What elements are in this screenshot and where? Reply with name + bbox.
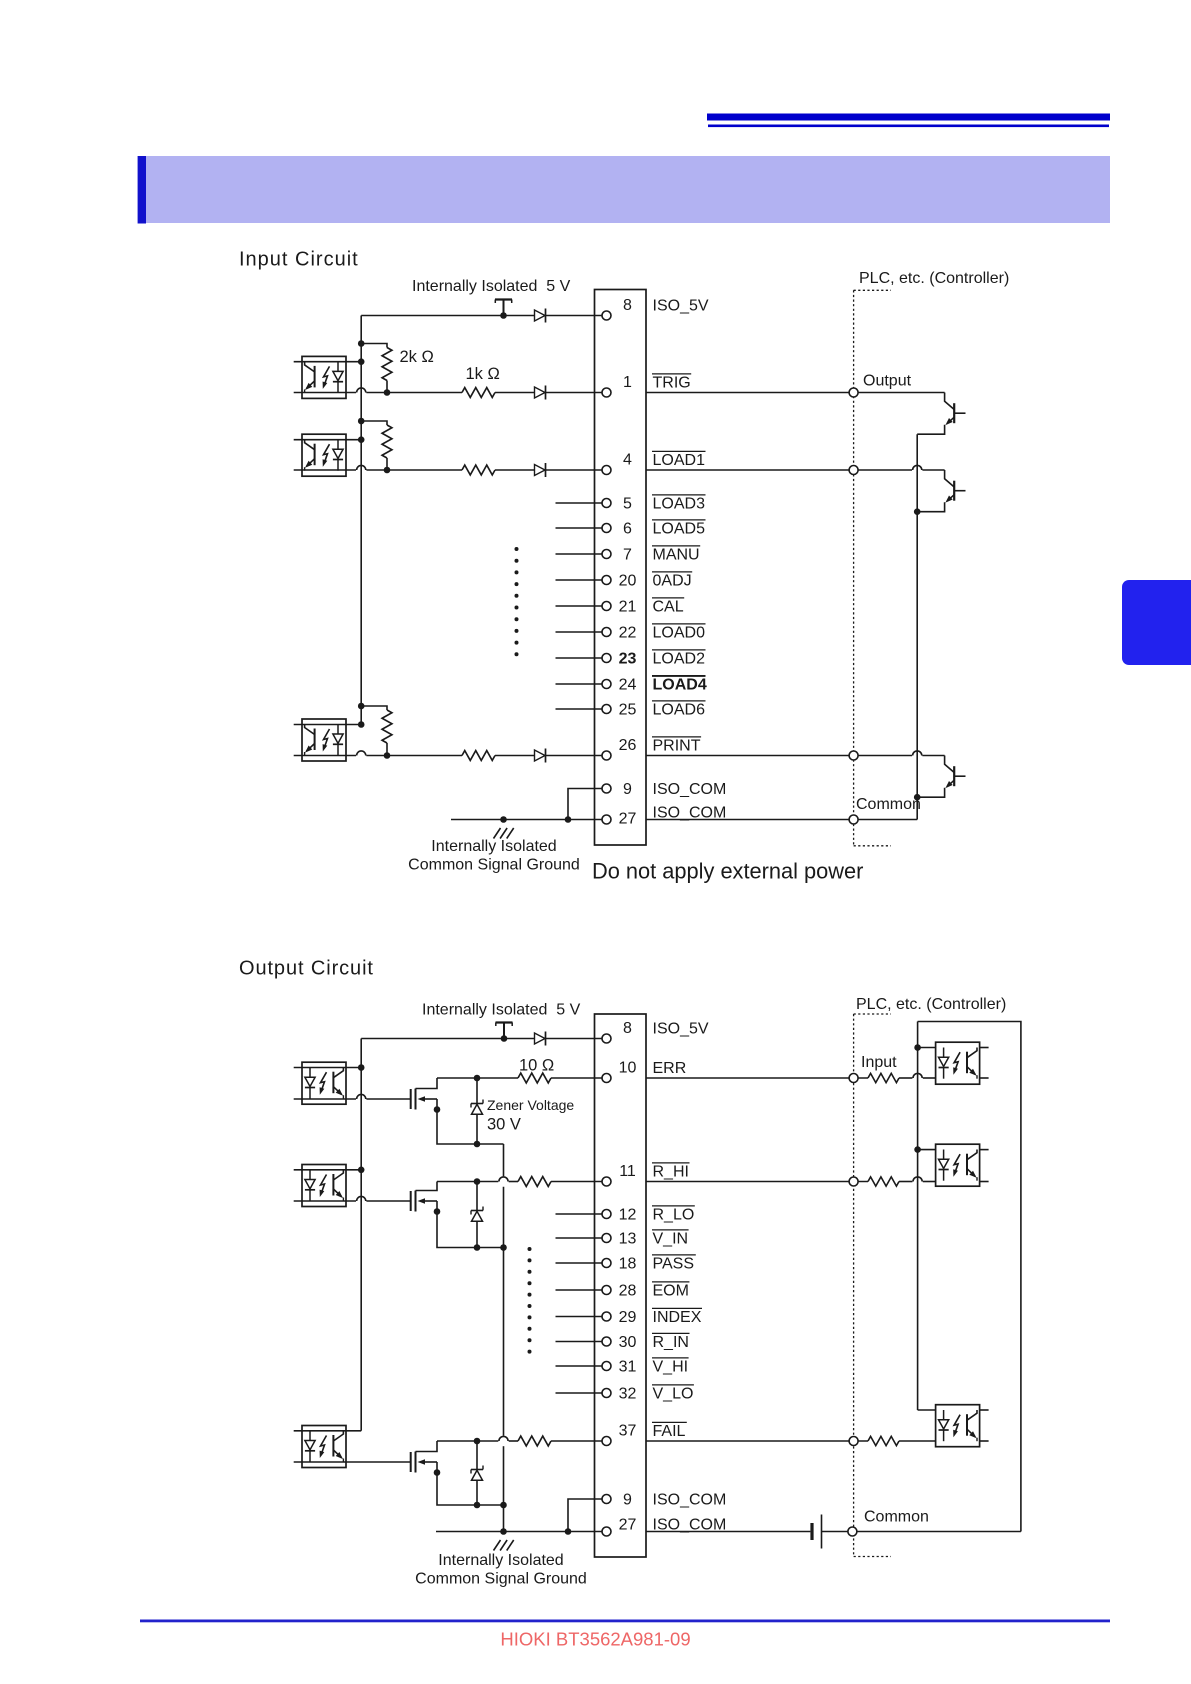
svg-text:27: 27 <box>619 811 637 828</box>
svg-text:13: 13 <box>619 1231 637 1248</box>
svg-text:31: 31 <box>619 1359 637 1376</box>
pin 6 (input) <box>602 521 632 538</box>
pin 20 (input) <box>602 573 637 590</box>
svg-text:Common Signal Ground: Common Signal Ground <box>408 857 580 874</box>
pin 32 label V_LO <box>652 1385 694 1403</box>
wire zener D6 branch <box>476 1078 478 1144</box>
node pin9/pin27 tie (input) <box>565 816 572 823</box>
svg-text:Common Signal Ground: Common Signal Ground <box>415 1571 587 1588</box>
pin 32 (output) <box>602 1386 637 1403</box>
pin 13 label V_IN <box>652 1230 689 1248</box>
wire PC6 collector stub <box>294 1430 362 1432</box>
svg-text:30 V: 30 V <box>487 1116 521 1134</box>
top rule thick blue <box>707 114 1110 121</box>
wire PC4 emitter to Q4 gate <box>294 1094 411 1099</box>
label "30 V" <box>487 1116 521 1134</box>
diode D3 (LOAD1 row) <box>535 463 546 477</box>
wire FAIL to controller opto <box>646 1436 936 1445</box>
node pin9/pin27 tie (output) <box>565 1528 572 1535</box>
wire ISO_COM row (output) <box>436 1531 602 1533</box>
pin 7 (input) <box>602 547 632 564</box>
pin 27 (input) <box>602 811 637 828</box>
diode D5 (ISO_5V row output) <box>535 1032 546 1046</box>
pin 22 label LOAD0 <box>652 624 706 642</box>
pin 21 (input) <box>602 599 637 616</box>
svg-text:R_IN: R_IN <box>653 1334 689 1351</box>
resistor R4 1k (LOAD1 series) <box>462 465 495 475</box>
pin 29 label INDEX <box>652 1308 702 1326</box>
wire Q5 source to common drop <box>437 1212 504 1248</box>
svg-text:12: 12 <box>619 1207 637 1224</box>
pin 8 (output) <box>602 1020 632 1043</box>
label "Output" (PLC side) <box>863 373 912 390</box>
svg-text:1: 1 <box>623 374 632 391</box>
wire PC5 emitter to Q5 gate <box>294 1196 411 1201</box>
svg-text:LOAD3: LOAD3 <box>653 496 706 513</box>
svg-text:20: 20 <box>619 573 637 590</box>
diode D2 (TRIG row) <box>535 386 546 400</box>
terminal circle PRINT/controller <box>849 751 858 760</box>
wire stub pin 5 <box>556 502 603 504</box>
wire stub pin 31 <box>556 1365 603 1367</box>
resistor R7 10 ohm (ERR) <box>518 1073 551 1083</box>
pin 9 (input) <box>602 781 632 798</box>
svg-text:LOAD1: LOAD1 <box>653 452 706 469</box>
svg-text:LOAD4: LOAD4 <box>653 677 707 694</box>
transistor Q2 (controller output, LOAD1) <box>917 470 965 512</box>
svg-text:Internally Isolated 5 V: Internally Isolated 5 V <box>412 278 571 295</box>
node R1/TRIG junction <box>384 389 391 396</box>
node R5/PRINT junction <box>384 752 391 759</box>
wire stub pin 22 <box>556 631 603 633</box>
wire pin 9 to common (output) <box>568 1499 602 1532</box>
svg-text:ISO_5V: ISO_5V <box>653 1021 709 1038</box>
wire PC6 emitter to Q6 gate <box>294 1461 411 1463</box>
svg-text:Internally Isolated: Internally Isolated <box>431 838 556 855</box>
pin 1 (input) <box>602 374 632 397</box>
mosfet Q5 (R_HI driver) <box>411 1191 437 1212</box>
pin 23 (input) <box>602 651 637 668</box>
pin 12 (output) <box>602 1207 637 1224</box>
svg-text:Common: Common <box>856 796 921 813</box>
svg-text:Output Circuit: Output Circuit <box>239 958 374 980</box>
ground (internally isolated common, output) <box>494 1540 514 1551</box>
pin 24 label LOAD4 <box>652 676 707 694</box>
wire stub pin 6 <box>556 527 603 529</box>
svg-text:CAL: CAL <box>653 599 684 616</box>
junction dots common drop <box>500 1244 507 1535</box>
svg-text:27: 27 <box>619 1517 637 1534</box>
pin 9 label ISO_COM (output) <box>653 1492 727 1509</box>
pin 18 label PASS <box>652 1255 696 1273</box>
terminal circle Common (input) <box>849 815 858 824</box>
optocoupler PC5 (R_HI output) <box>302 1165 346 1207</box>
pin 13 (output) <box>602 1231 637 1248</box>
terminal circle FAIL/controller <box>849 1437 858 1446</box>
svg-text:Internally Isolated: Internally Isolated <box>438 1552 563 1569</box>
label "Internally Isolated" (output gnd) <box>438 1552 563 1569</box>
svg-text:FAIL: FAIL <box>653 1423 686 1440</box>
svg-text:PLC, etc. (Controller): PLC, etc. (Controller) <box>856 996 1006 1013</box>
pin 5 label LOAD3 <box>652 495 706 513</box>
transistor Q3 (controller output, PRINT) <box>917 756 965 798</box>
mosfet Q4 (ERR driver) <box>411 1089 437 1110</box>
svg-text:23: 23 <box>619 651 637 668</box>
wire PC3 collector to bus <box>294 724 362 726</box>
wire PLC opto PC9 anode <box>918 1409 936 1411</box>
label "Common Signal Ground" (input gnd) <box>408 857 580 874</box>
wire stub pin 32 <box>556 1392 603 1394</box>
svg-text:5: 5 <box>623 496 632 513</box>
svg-text:25: 25 <box>619 702 637 719</box>
node zener D6 top <box>474 1075 481 1082</box>
node zener D8 bottom <box>474 1502 481 1509</box>
svg-text:R_LO: R_LO <box>653 1207 695 1224</box>
svg-text:PRINT: PRINT <box>653 738 701 755</box>
terminal circle LOAD1/controller <box>849 466 858 475</box>
pin 27 (output) <box>602 1517 637 1536</box>
wire TRIG row (input) <box>294 388 602 393</box>
wire PC4 collector to bus <box>294 1067 362 1069</box>
wire PRINT row (input) <box>294 751 602 756</box>
wire stub pin 23 <box>556 657 603 659</box>
top rule thin blue <box>708 125 1109 128</box>
svg-text:LOAD2: LOAD2 <box>653 651 706 668</box>
ground (internally isolated common, input) <box>494 828 514 839</box>
pin 29 (output) <box>602 1309 637 1326</box>
label "Common" (input) <box>856 796 921 813</box>
label "Common Signal Ground" (output gnd) <box>415 1571 587 1588</box>
pin 18 (output) <box>602 1256 637 1273</box>
pin 23 label LOAD2 <box>652 650 706 668</box>
optocoupler PC2 (LOAD1 input) <box>302 434 346 476</box>
wire Common row (input) <box>646 819 917 821</box>
wire Q6 source to common drop <box>437 1473 504 1506</box>
section title "Input Circuit" <box>239 249 359 271</box>
wire TRIG to controller <box>646 392 945 394</box>
ellipsis dots (output rows omitted) <box>528 1247 532 1354</box>
wire Q4 drain to ERR <box>416 1078 438 1089</box>
optocoupler PC7 (controller input ERR) <box>936 1042 980 1084</box>
wire PC5 collector to bus <box>294 1169 362 1171</box>
PLC boundary dashed line (input) <box>853 290 855 846</box>
wire FAIL row (output) <box>437 1436 602 1441</box>
svg-text:EOM: EOM <box>653 1283 689 1300</box>
diode D4 (PRINT row) <box>535 749 546 763</box>
node zener D7 top <box>474 1178 481 1185</box>
wire stub pin 29 <box>556 1316 603 1318</box>
node zener D8 top <box>474 1438 481 1445</box>
svg-text:10 Ω: 10 Ω <box>519 1057 554 1075</box>
wire ISO_COM row (input) <box>451 819 602 821</box>
svg-text:9: 9 <box>623 781 632 798</box>
chapter header bar <box>146 156 1110 223</box>
label "Internally Isolated 5 V" (input) <box>412 278 571 295</box>
terminal circle ERR/controller <box>849 1074 858 1083</box>
pin 27 label ISO_COM (input) <box>653 805 727 822</box>
pin 27 label ISO_COM (output) <box>653 1517 727 1534</box>
pin 4 (input) <box>602 452 632 475</box>
svg-text:11: 11 <box>619 1163 636 1180</box>
svg-text:Internally Isolated 5 V: Internally Isolated 5 V <box>422 1002 581 1019</box>
svg-text:Do not apply external power: Do not apply external power <box>592 859 863 884</box>
wire stub pin 12 <box>556 1213 603 1215</box>
node zener D7 bottom <box>474 1244 481 1251</box>
svg-text:ERR: ERR <box>653 1060 687 1077</box>
pin 30 label R_IN <box>652 1333 690 1351</box>
optocoupler PC3 (PRINT input) <box>302 719 346 761</box>
wire PLC opto PC7 anode <box>914 1044 935 1051</box>
svg-text:R_HI: R_HI <box>653 1164 689 1181</box>
svg-text:LOAD6: LOAD6 <box>653 702 706 719</box>
svg-text:ISO_5V: ISO_5V <box>653 298 709 315</box>
pin 11 label R_HI <box>652 1163 690 1181</box>
svg-text:Zener Voltage: Zener Voltage <box>487 1097 574 1113</box>
wire LOAD1 row (input) <box>294 465 602 470</box>
svg-text:V_HI: V_HI <box>653 1359 689 1376</box>
wire Q4 source to common drop <box>437 1110 504 1145</box>
svg-text:30: 30 <box>619 1334 637 1351</box>
label "Input" (PLC side) <box>861 1054 897 1071</box>
svg-text:ISO_COM: ISO_COM <box>653 1492 727 1509</box>
svg-text:6: 6 <box>623 521 632 538</box>
node Q4 source <box>434 1106 441 1113</box>
wire Common row (output) <box>646 1531 1021 1533</box>
pin 26 (input) <box>602 737 637 760</box>
svg-text:TRIG: TRIG <box>653 375 691 392</box>
wire R_HI row (output) <box>437 1177 602 1182</box>
svg-text:HIOKI BT3562A981-09: HIOKI BT3562A981-09 <box>500 1629 690 1650</box>
pin 30 (output) <box>602 1334 637 1351</box>
wire stub pin 20 <box>556 579 603 581</box>
node Q6 source <box>434 1469 441 1476</box>
wire ISO_5V row (output) <box>361 1038 602 1040</box>
wire left 5V bus (output) <box>360 1039 362 1431</box>
wire stub pin 13 <box>556 1237 603 1239</box>
svg-text:32: 32 <box>619 1386 637 1403</box>
controller box (output PLC) <box>918 1022 1021 1532</box>
wire stub pin 18 <box>556 1262 603 1264</box>
svg-text:7: 7 <box>623 547 632 564</box>
pin 28 (output) <box>602 1283 637 1300</box>
ellipsis dots (input rows omitted) <box>515 547 519 656</box>
wire stub pin 28 <box>556 1289 603 1291</box>
diode D1 (ISO_5V row input) <box>535 309 546 323</box>
wire zener D8 branch <box>476 1441 478 1505</box>
pin 9 (output) <box>602 1492 632 1509</box>
resistor R6 1k (PRINT series) <box>462 751 495 761</box>
wire stub pin 24 <box>556 683 603 685</box>
junction dots on left bus (output) <box>358 1064 365 1173</box>
pin 22 (input) <box>602 625 637 642</box>
wire left 5V bus (input) <box>360 316 362 725</box>
resistor R8 (R_HI) <box>518 1177 551 1187</box>
section title "Output Circuit" <box>239 958 374 980</box>
junction dots on left bus (input) <box>358 340 365 728</box>
svg-text:INDEX: INDEX <box>653 1309 702 1326</box>
wire stub pin 7 <box>556 553 603 555</box>
svg-text:26: 26 <box>619 737 637 754</box>
junction dots emitter bus (input) <box>914 508 921 800</box>
wire stub pin 25 <box>556 708 603 710</box>
pin 25 label LOAD6 <box>652 701 706 719</box>
terminal circle R_HI/controller <box>849 1177 858 1186</box>
label "PLC, etc. (Controller)" (input) <box>859 270 1009 287</box>
5V power tap (output) <box>496 1023 513 1042</box>
side chapter tab <box>1122 580 1191 665</box>
svg-text:PLC, etc. (Controller): PLC, etc. (Controller) <box>859 270 1009 287</box>
resistor R2 1k (TRIG series) <box>462 388 495 398</box>
svg-text:LOAD5: LOAD5 <box>653 521 706 538</box>
wire pin 9 to common (input) <box>568 789 602 820</box>
pin 24 (input) <box>602 677 637 694</box>
svg-text:29: 29 <box>619 1309 637 1326</box>
svg-text:18: 18 <box>619 1256 637 1273</box>
node R3/LOAD1 junction <box>384 467 391 474</box>
mosfet Q6 (FAIL driver) <box>411 1452 437 1473</box>
pin 37 label FAIL <box>652 1422 687 1440</box>
wire PLC opto PC8 anode <box>914 1146 935 1153</box>
optocoupler PC9 (controller input FAIL) <box>936 1405 980 1447</box>
svg-text:ISO_COM: ISO_COM <box>653 781 727 798</box>
wire ERR to controller opto <box>646 1073 936 1082</box>
resistor R5 2k (PRINT pull-up) <box>361 706 392 756</box>
wire zener D7 branch <box>476 1182 478 1248</box>
pin 8 label ISO_5V (output) <box>653 1021 709 1038</box>
wire common drop (output) <box>503 1144 505 1532</box>
wire Q6 drain to FAIL <box>416 1441 438 1452</box>
label "Common" (output) <box>864 1509 929 1526</box>
svg-text:0ADJ: 0ADJ <box>653 573 692 590</box>
svg-text:2k Ω: 2k Ω <box>400 348 434 366</box>
wire ISO_5V row (input) <box>361 315 602 317</box>
svg-text:Common: Common <box>864 1509 929 1526</box>
pin 1 label TRIG <box>652 374 691 392</box>
resistor R9 (FAIL) <box>518 1436 551 1446</box>
wire R_HI to controller opto <box>646 1177 936 1186</box>
connector box (input) <box>595 290 647 846</box>
footer rule blue <box>140 1620 1110 1623</box>
wire LOAD1 to controller <box>646 465 945 470</box>
svg-text:LOAD0: LOAD0 <box>653 625 706 642</box>
transistor Q1 (controller output, TRIG) <box>917 393 965 435</box>
pin 31 (output) <box>602 1359 637 1376</box>
svg-text:1k Ω: 1k Ω <box>466 365 500 383</box>
pin 31 label V_HI <box>652 1358 689 1376</box>
svg-text:MANU: MANU <box>653 547 700 564</box>
svg-text:22: 22 <box>619 625 637 642</box>
label "2k Ω" <box>400 348 434 366</box>
pin 11 (output) <box>602 1163 636 1186</box>
pin 10 label ERR <box>653 1060 687 1077</box>
wire PC2 collector to bus <box>294 439 362 441</box>
pin 6 label LOAD5 <box>652 520 706 538</box>
svg-text:21: 21 <box>619 599 637 616</box>
svg-text:Input Circuit: Input Circuit <box>239 249 359 271</box>
wire PRINT to controller <box>646 751 945 756</box>
zener diode D7 <box>471 1207 483 1222</box>
zener diode D6 (30V) <box>471 1100 483 1115</box>
pin 26 label PRINT <box>652 737 701 755</box>
pin 20 label 0ADJ <box>652 572 692 590</box>
resistor R3 2k (LOAD1 pull-up) <box>361 421 392 470</box>
optocoupler PC6 (FAIL output) <box>302 1426 346 1468</box>
terminal circle Common (output) <box>848 1527 857 1536</box>
svg-text:Input: Input <box>861 1054 897 1071</box>
pin 5 (input) <box>602 496 632 513</box>
svg-text:8: 8 <box>623 297 632 314</box>
wires PC8 output stubs <box>980 1150 989 1182</box>
pin 28 label EOM <box>652 1282 689 1300</box>
warning "Do not apply external power" <box>592 859 863 884</box>
wire controller emitter bus (input) <box>916 434 918 819</box>
label "1k Ω" <box>466 365 500 383</box>
svg-text:9: 9 <box>623 1492 632 1509</box>
pin 4 label LOAD1 <box>652 451 706 469</box>
pin 9 label ISO_COM (input) <box>653 781 727 798</box>
svg-text:4: 4 <box>623 452 632 469</box>
wires PC7 output stubs <box>980 1048 989 1079</box>
label "Internally Isolated" (input gnd) <box>431 838 556 855</box>
pin 8 label ISO_5V (input) <box>653 298 709 315</box>
wires PC9 output stubs <box>980 1410 989 1441</box>
svg-text:8: 8 <box>623 1020 632 1037</box>
5V power tap (input) <box>495 300 512 319</box>
pin 12 label R_LO <box>652 1206 695 1224</box>
wire ERR row (output) <box>437 1077 602 1079</box>
connector box (output) <box>595 1014 647 1557</box>
wire stub pin 30 <box>556 1341 603 1343</box>
pin 21 label CAL <box>652 598 684 616</box>
pin 37 (output) <box>602 1423 637 1446</box>
resistor R1 2k (TRIG pull-up) <box>361 344 392 393</box>
svg-text:PASS: PASS <box>653 1256 695 1273</box>
wire stub pin 21 <box>556 605 603 607</box>
optocoupler PC1 (TRIG input) <box>302 356 346 398</box>
label "Zener Voltage" <box>487 1097 574 1113</box>
optocoupler PC8 (controller input R_HI) <box>936 1144 980 1186</box>
label "PLC, etc. (Controller)" (output) <box>856 996 1006 1013</box>
wire PC1 collector to bus <box>294 361 362 363</box>
node Q5 source <box>434 1208 441 1215</box>
svg-text:37: 37 <box>619 1423 637 1440</box>
node signal-ground tap (input) <box>500 816 507 823</box>
pin 8 (input) <box>602 297 632 320</box>
wire Q5 drain to R_HI <box>416 1182 438 1191</box>
battery (controller supply) <box>812 1515 822 1549</box>
svg-text:24: 24 <box>619 677 637 694</box>
PLC boundary dashed line (output) <box>853 1014 855 1557</box>
pin 25 (input) <box>602 702 637 719</box>
optocoupler PC4 (ERR output) <box>302 1062 346 1104</box>
svg-text:Output: Output <box>863 373 912 390</box>
zener diode D8 <box>471 1466 483 1481</box>
svg-text:V_IN: V_IN <box>653 1231 689 1248</box>
svg-text:10: 10 <box>619 1060 637 1077</box>
chapter header accent bar <box>138 156 146 224</box>
pin 10 (output) <box>602 1060 637 1083</box>
svg-text:28: 28 <box>619 1283 637 1300</box>
node zener D6 bottom <box>474 1141 481 1148</box>
label "Internally Isolated 5 V" (output) <box>422 1002 581 1019</box>
terminal circle TRIG/controller <box>849 388 858 397</box>
pin 7 label MANU <box>652 546 700 564</box>
svg-text:V_LO: V_LO <box>653 1386 694 1403</box>
label "10 Ω" <box>519 1057 554 1075</box>
